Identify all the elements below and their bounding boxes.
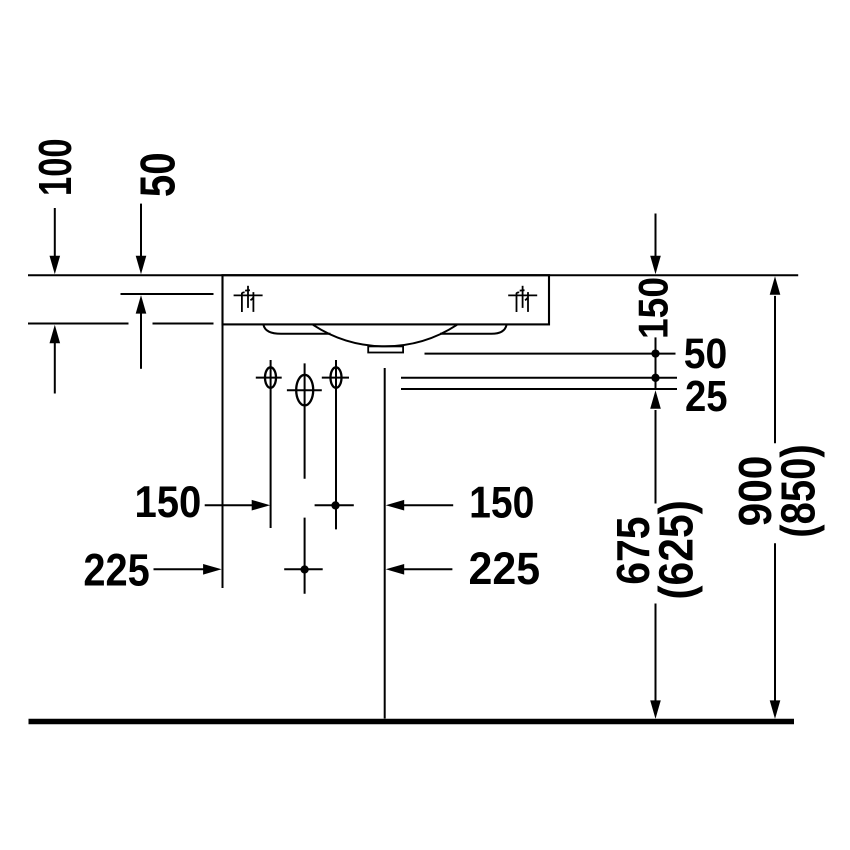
svg-text:225: 225 bbox=[469, 544, 541, 594]
svg-text:150: 150 bbox=[469, 477, 534, 527]
svg-text:150: 150 bbox=[134, 477, 201, 526]
svg-text:25: 25 bbox=[685, 372, 728, 421]
svg-text:(625): (625) bbox=[649, 500, 703, 600]
svg-text:150: 150 bbox=[630, 277, 677, 339]
svg-text:225: 225 bbox=[83, 545, 149, 596]
svg-text:50: 50 bbox=[131, 152, 186, 197]
svg-text:100: 100 bbox=[29, 138, 81, 196]
svg-text:(850): (850) bbox=[772, 444, 825, 537]
svg-text:50: 50 bbox=[684, 330, 727, 378]
